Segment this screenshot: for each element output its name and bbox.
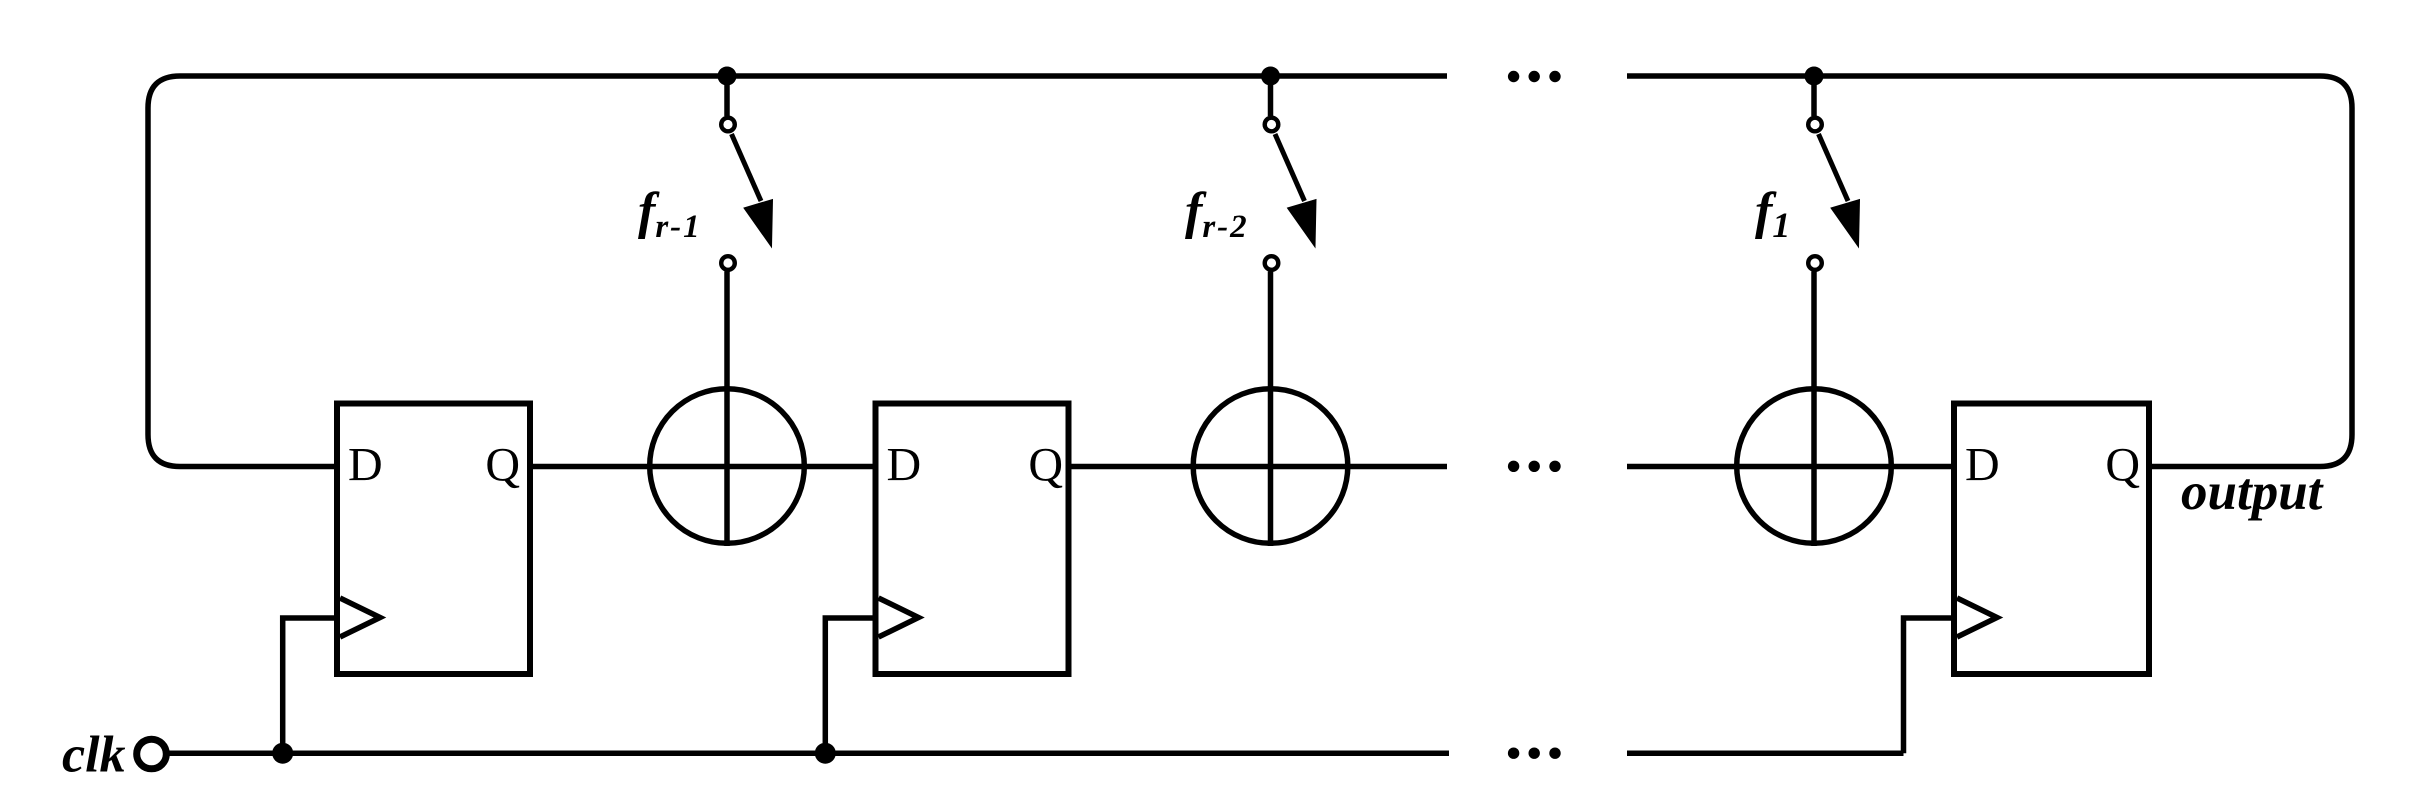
wire U1 Q to XOR X1 to U2 D bbox=[530, 464, 878, 470]
junction dot at tap f_r-2 bbox=[1261, 67, 1280, 86]
clk input terminal (open circle) bbox=[137, 739, 167, 769]
switch f_1 (tap switch with arrow) bbox=[1808, 76, 1859, 270]
svg-text:D: D bbox=[1965, 439, 2000, 492]
svg-text:Q: Q bbox=[1028, 439, 1063, 492]
junction dot at tap f_1 bbox=[1805, 67, 1824, 86]
switch f_r-1 (tap switch with arrow) bbox=[721, 76, 772, 270]
svg-text:Q: Q bbox=[485, 439, 520, 492]
flip-flop U2 (D flip-flop, middle) bbox=[876, 404, 1069, 675]
switch f_r-2 (tap switch with arrow) bbox=[1265, 76, 1316, 270]
svg-text:D: D bbox=[348, 439, 383, 492]
junction dot clk to U1 bbox=[272, 743, 293, 764]
XOR gate X1 bbox=[650, 389, 805, 544]
wire feedback loop left segment (Q output return to D of leftmost flip-flop) bbox=[148, 76, 1447, 467]
wire switch f_1 to XOR X3 bbox=[1811, 272, 1817, 547]
wire clk riser to U3 clock pin bbox=[1904, 618, 1955, 753]
wire feedback loop right segment (top bus to output side) bbox=[1627, 76, 2352, 467]
svg-text:Q: Q bbox=[2105, 439, 2140, 492]
svg-text:f1: f1 bbox=[1755, 183, 1790, 245]
svg-text:fr-1: fr-1 bbox=[638, 183, 702, 245]
ellipsis top bus bbox=[1508, 71, 1561, 82]
flip-flop U1 (D flip-flop, leftmost) bbox=[337, 404, 530, 675]
wire ellipsis to XOR X3 to U3 D bbox=[1627, 464, 1954, 470]
wire U2 Q toward ellipsis bbox=[1069, 464, 1448, 470]
junction dot clk to U2 bbox=[815, 743, 836, 764]
XOR gate X3 bbox=[1737, 389, 1892, 544]
wire clk line left segment bbox=[167, 750, 1450, 756]
wire switch f_r-1 to XOR X1 bbox=[724, 272, 730, 547]
svg-text:clk: clk bbox=[62, 727, 126, 784]
ellipsis middle row bbox=[1508, 461, 1561, 472]
svg-text:D: D bbox=[887, 439, 922, 492]
ellipsis clock line bbox=[1508, 748, 1561, 759]
svg-text:fr-2: fr-2 bbox=[1185, 183, 1249, 245]
svg-text:output: output bbox=[2181, 463, 2325, 521]
wire clk line right segment bbox=[1627, 750, 1904, 756]
wire switch f_r-2 to XOR X2 bbox=[1268, 272, 1274, 547]
wire clk riser to U2 clock pin bbox=[825, 618, 875, 753]
wire clk riser to U1 clock pin bbox=[283, 618, 337, 753]
junction dot at tap f_r-1 bbox=[718, 67, 737, 86]
XOR gate X2 bbox=[1193, 389, 1348, 544]
flip-flop U3 (D flip-flop, rightmost) bbox=[1954, 404, 2149, 675]
